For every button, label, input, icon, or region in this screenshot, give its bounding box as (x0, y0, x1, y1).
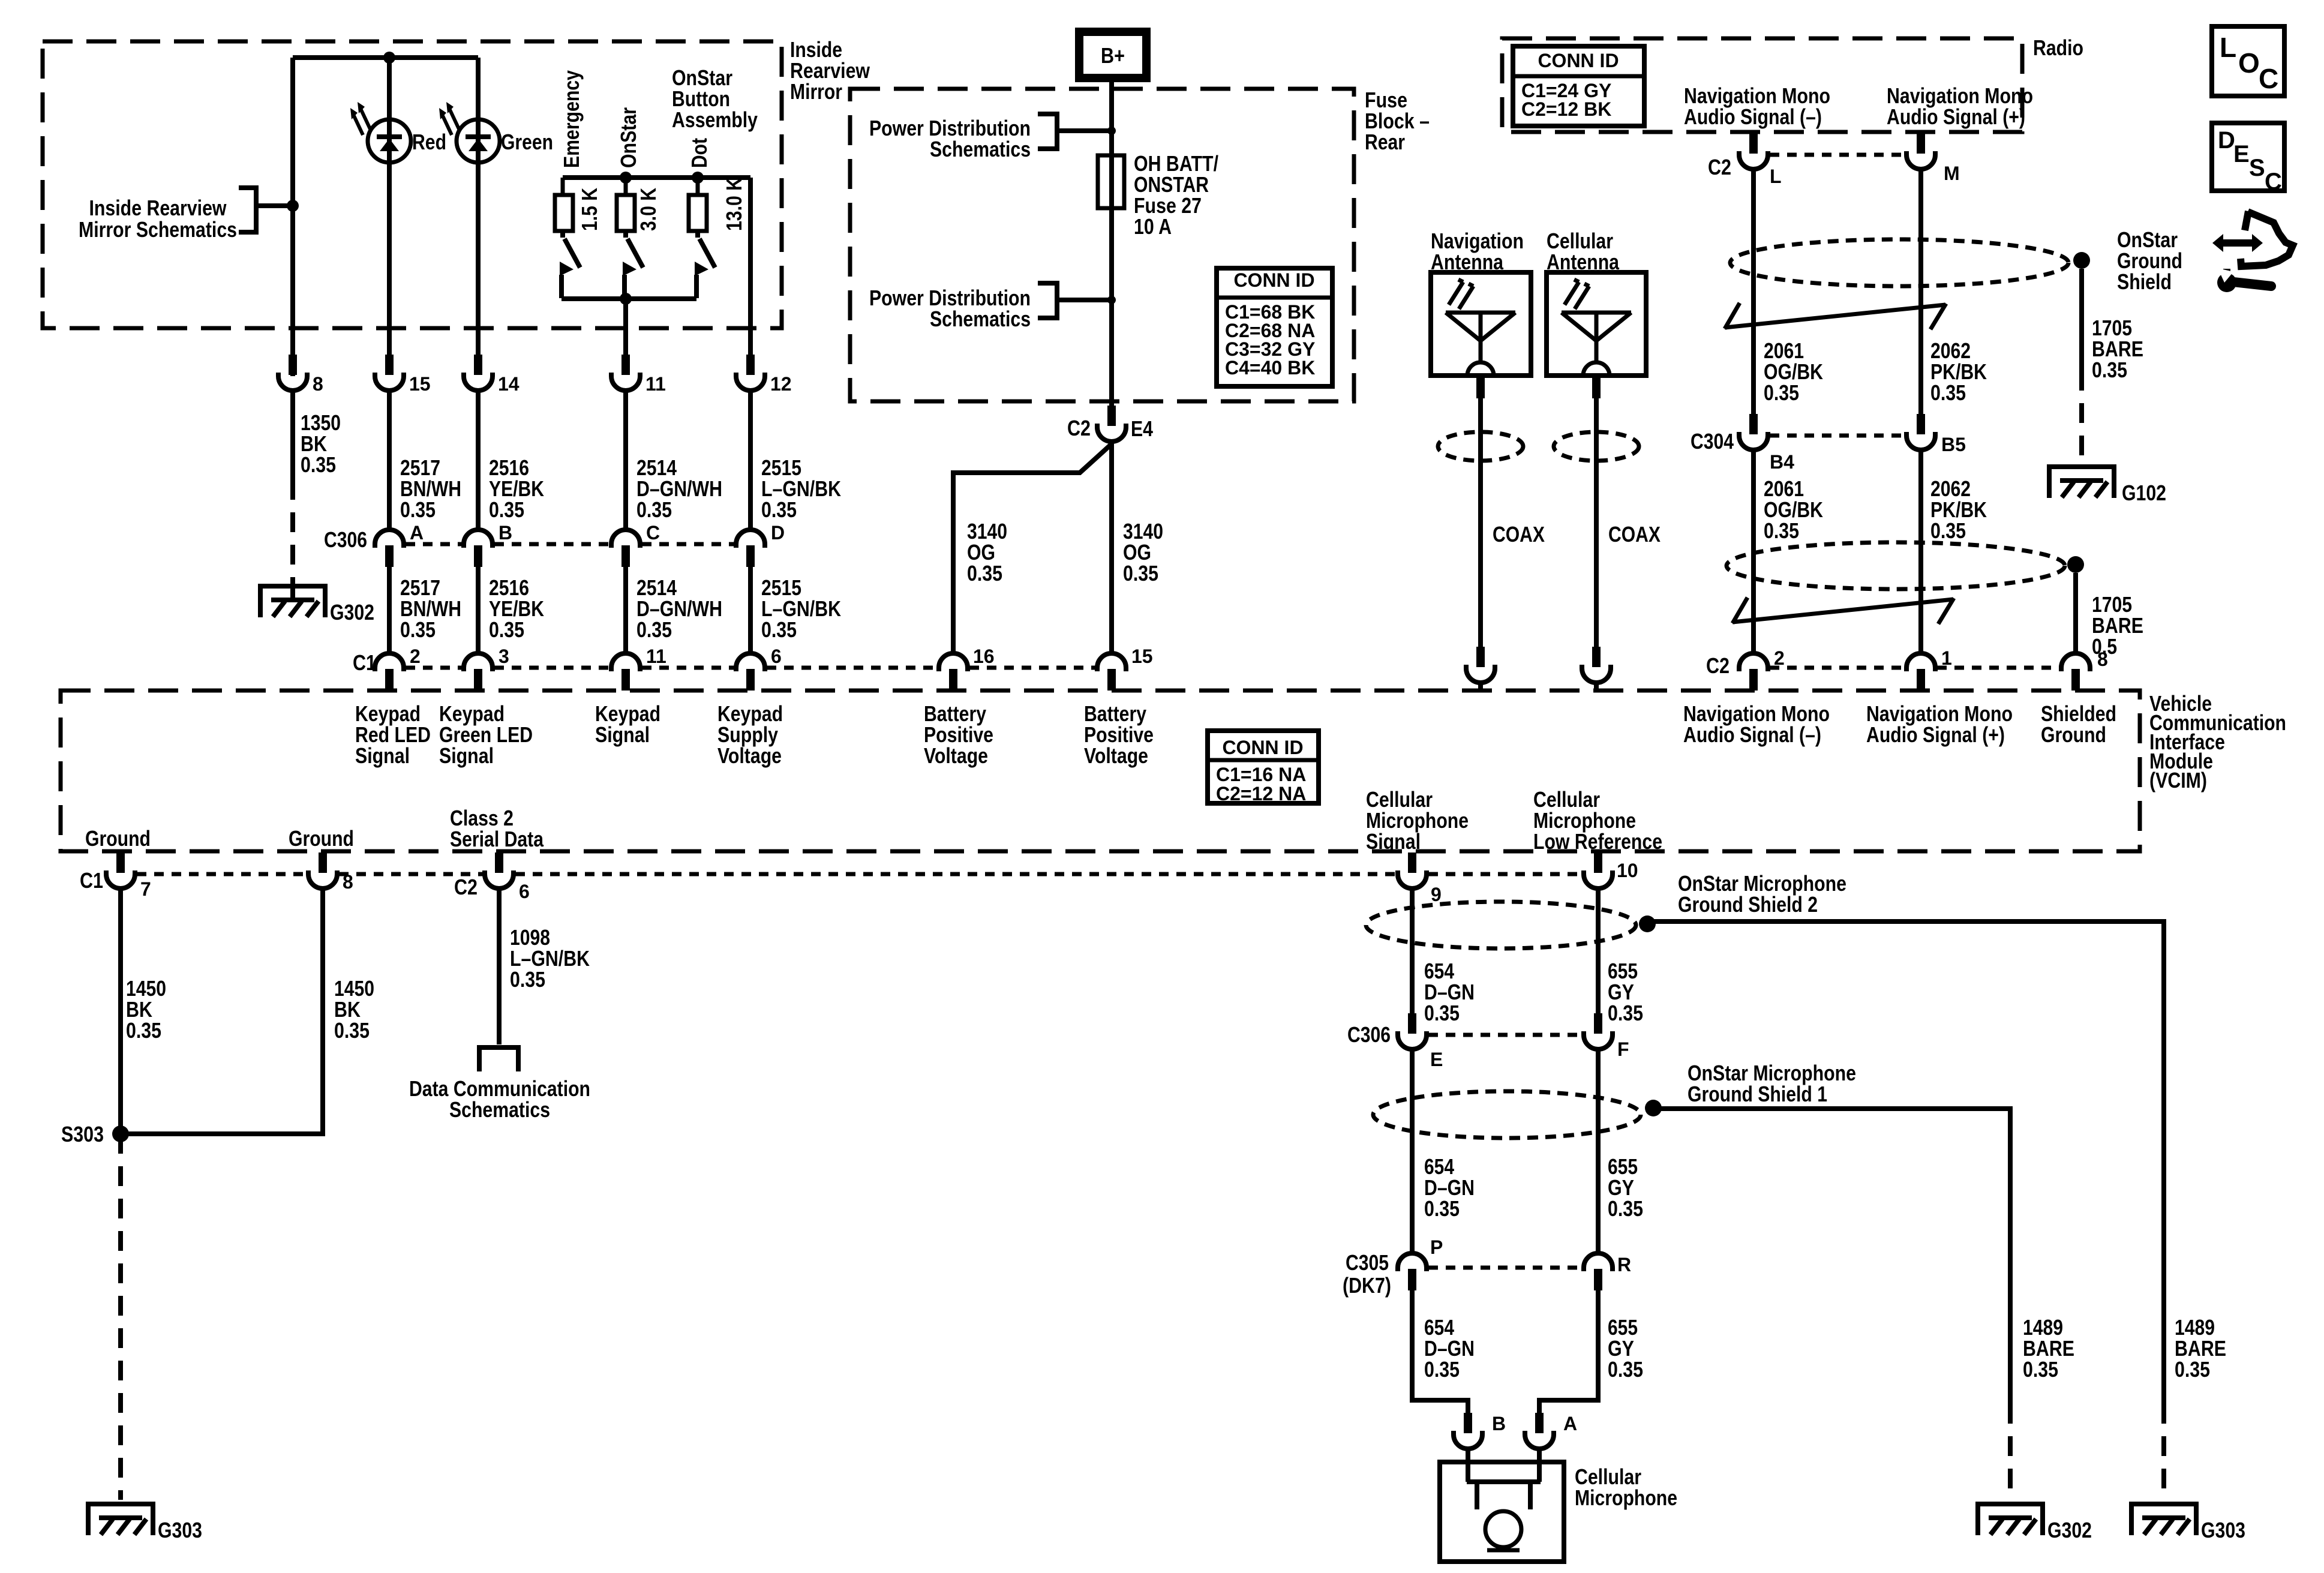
svg-text:Voltage: Voltage (924, 743, 988, 768)
shield ellipse cell antenna (1554, 432, 1639, 461)
connector C306 pin A (375, 530, 404, 567)
svg-text:Mirror Schematics: Mirror Schematics (79, 217, 237, 242)
label 654 D-GN 0.35 lower (1424, 1315, 1475, 1382)
svg-text:F: F (1617, 1038, 1629, 1060)
wire mic ground shield 2 (1647, 921, 2164, 1500)
svg-text:C2=12 BK: C2=12 BK (1521, 98, 1611, 120)
svg-text:Low Reference: Low Reference (1533, 829, 1662, 854)
connector mic pin B (1454, 1413, 1482, 1449)
wire battery 16 branch (953, 444, 1112, 653)
label 2514 D-GN/WH 0.35 upper (636, 455, 722, 522)
label 1098 L-GN/BK 0.35 (510, 925, 590, 992)
connector C306 pin C (611, 530, 640, 567)
svg-text:B+: B+ (1101, 43, 1125, 68)
svg-text:D: D (2218, 127, 2235, 154)
svg-text:R: R (1617, 1254, 1631, 1275)
wire B+ feed (1109, 78, 1114, 155)
svg-text:G302: G302 (2047, 1518, 2092, 1542)
svg-text:16: 16 (973, 646, 995, 667)
wire 1705 BARE 0.35 drop (2079, 269, 2084, 462)
wire 1450 BK left (118, 888, 123, 1134)
svg-text:2: 2 (410, 646, 421, 667)
radio dashed box (1502, 38, 2022, 132)
wire 2062 upper (1918, 169, 1923, 415)
wire nav coax (1476, 378, 1485, 647)
ground G303 right (2131, 1502, 2196, 1535)
svg-text:Radio: Radio (2033, 35, 2083, 60)
label OnStar Microphone Ground Shield 1 (1688, 1061, 1856, 1106)
svg-text:0.35: 0.35 (1424, 1357, 1460, 1382)
B+ symbol (1079, 32, 1146, 78)
svg-text:Signal: Signal (595, 722, 650, 747)
svg-text:C304: C304 (1691, 429, 1734, 454)
svg-text:C305: C305 (1346, 1250, 1389, 1275)
wire 655 upper (1596, 888, 1601, 1020)
svg-text:Audio Signal (–): Audio Signal (–) (1683, 722, 1821, 747)
LED green (439, 102, 500, 163)
label Vehicle Communication Interface Module (VCIM) (2149, 691, 2286, 792)
shield ellipse mic 2 (1366, 902, 1636, 948)
wire C1 row dashes (406, 666, 1095, 670)
svg-text:G102: G102 (2122, 481, 2166, 505)
label 655 GY 0.35 middle (1608, 1154, 1643, 1221)
svg-text:9: 9 (1431, 884, 1442, 905)
connector C1 pin 11 (611, 653, 640, 691)
resistor 1.5 K (555, 178, 602, 231)
connector C2 pin 2 (1739, 653, 1768, 691)
node mic shield 2 (1639, 915, 1656, 932)
svg-text:Shield: Shield (2117, 269, 2172, 294)
node onstar top (620, 172, 632, 184)
wire fuse to E4 (1109, 208, 1114, 406)
ground G102 (2049, 464, 2114, 498)
wire 1098 (497, 888, 502, 1044)
wire cell coax (1592, 378, 1601, 647)
node power distribution 1 (1107, 127, 1116, 135)
svg-text:Audio Signal (+): Audio Signal (+) (1887, 104, 2025, 129)
svg-text:C2=12 NA: C2=12 NA (1216, 783, 1306, 804)
fuse block rear dashed box (850, 89, 1354, 401)
svg-text:G302: G302 (330, 600, 374, 625)
connector C306 pin D (736, 530, 765, 567)
svg-text:7: 7 (140, 878, 151, 900)
svg-text:13.0 K: 13.0 K (722, 178, 746, 231)
label Power Distribution Schematics 1 (869, 116, 1031, 161)
svg-text:(DK7): (DK7) (1343, 1273, 1391, 1298)
svg-text:C2: C2 (454, 875, 478, 899)
label Inside Rearview Mirror Schematics (79, 196, 237, 242)
svg-text:A: A (1563, 1413, 1577, 1434)
switch dot (695, 231, 715, 298)
label 2062 PK/BK 0.35 upper (1930, 338, 1987, 405)
cellular microphone box (1440, 1462, 1564, 1562)
label 2515 L-GN/BK 0.35 upper (761, 455, 841, 522)
node mic shield 1 (1645, 1100, 1662, 1116)
svg-text:0.35: 0.35 (761, 497, 797, 522)
shield ellipse nav antenna (1438, 432, 1523, 461)
label Navigation Mono Audio Signal (+) bottom (1866, 701, 2013, 747)
node dot top (692, 172, 704, 184)
label 3140 OG 0.35 right (1123, 519, 1163, 586)
resistor 3.0 K (617, 178, 660, 231)
svg-text:Ground Shield 2: Ground Shield 2 (1678, 892, 1818, 917)
label Cellular Microphone (1575, 1464, 1677, 1510)
svg-text:C2: C2 (1708, 155, 1731, 179)
svg-text:C2: C2 (1706, 653, 1730, 678)
svg-text:B: B (1492, 1413, 1506, 1434)
svg-text:15: 15 (1131, 646, 1153, 667)
svg-text:6: 6 (519, 881, 530, 902)
bracket power distribution 2 (1038, 283, 1112, 318)
svg-text:C: C (2265, 169, 2282, 195)
connector C1 pin 15 (1097, 653, 1126, 691)
node shield lower (2067, 556, 2084, 573)
connector C304 pin B5 (1906, 414, 1935, 450)
label Keypad Red LED Signal (355, 701, 431, 768)
label 2516 YE/BK 0.35 lower (489, 575, 544, 642)
svg-text:0.35: 0.35 (636, 497, 672, 522)
svg-text:0.35: 0.35 (636, 617, 672, 642)
svg-text:Schematics: Schematics (930, 137, 1031, 161)
wire red LED (387, 58, 392, 356)
svg-text:C4=40 BK: C4=40 BK (1225, 357, 1315, 379)
label Keypad Supply Voltage (717, 701, 783, 768)
svg-text:0.35: 0.35 (489, 497, 524, 522)
connector C1 pin 6 (736, 653, 765, 691)
label Keypad Green LED Signal (439, 701, 533, 768)
svg-text:1.5 K: 1.5 K (577, 188, 602, 231)
pin 14 (464, 355, 493, 391)
svg-text:Schematics: Schematics (449, 1097, 550, 1122)
pin 11 (611, 355, 640, 391)
label Keypad Signal (595, 701, 660, 747)
svg-text:B5: B5 (1941, 434, 1966, 455)
svg-text:Green: Green (501, 130, 553, 154)
connector C304 pin B4 (1739, 414, 1768, 450)
label 655 GY 0.35 upper (1608, 959, 1643, 1025)
svg-text:0.35: 0.35 (1764, 380, 1799, 405)
wire switch bottom bus (562, 296, 696, 301)
CONN ID box fuse block (1217, 268, 1332, 386)
off-page symbol data communication (479, 1047, 518, 1071)
wire 2516 upper (476, 391, 481, 530)
connector cell coax at VCIM (1582, 647, 1611, 683)
wire 654 upper (1410, 888, 1415, 1020)
svg-text:0.35: 0.35 (334, 1018, 370, 1043)
wire C306 EF dashes (1428, 1033, 1582, 1037)
shield ellipse mic 1 (1373, 1091, 1641, 1138)
svg-text:10: 10 (1617, 860, 1638, 881)
label 655 GY 0.35 lower (1608, 1315, 1643, 1382)
connector nav coax at VCIM (1466, 647, 1495, 683)
svg-text:A: A (410, 522, 424, 544)
label OnStar Ground Shield (2117, 227, 2182, 294)
svg-text:0.35: 0.35 (1930, 518, 1966, 543)
ground G302 (mirror) (260, 584, 325, 617)
VCIM dashed box (61, 691, 2140, 851)
microphone symbol (1467, 1449, 1541, 1550)
svg-text:Emergency: Emergency (559, 70, 584, 168)
twist symbol lower (1733, 598, 1954, 624)
wire 2514 upper (623, 391, 628, 530)
svg-text:0.35: 0.35 (1424, 1001, 1460, 1025)
wire 2061 lower (1751, 450, 1756, 653)
label OnStar Button Assembly (672, 65, 758, 132)
ground G303 left (88, 1502, 153, 1535)
svg-text:CONN ID: CONN ID (1233, 269, 1314, 291)
ground G302 right (1978, 1502, 2043, 1535)
label 1489 BARE 0.35 right (2175, 1315, 2226, 1382)
wrench icon (2212, 211, 2293, 292)
label Battery Positive Voltage 16 (924, 701, 993, 768)
wire 2517 upper (387, 391, 392, 530)
label 1489 BARE 0.35 left (2023, 1315, 2074, 1382)
connector C2 pin 1 (1906, 653, 1935, 691)
svg-text:C1=16 NA: C1=16 NA (1216, 764, 1306, 785)
wire C2 row dashes (1770, 666, 2059, 670)
svg-text:0.35: 0.35 (2092, 358, 2127, 382)
svg-text:0.35: 0.35 (1764, 518, 1799, 543)
svg-text:Microphone: Microphone (1575, 1485, 1677, 1510)
svg-text:Signal: Signal (1366, 829, 1421, 854)
svg-text:Audio Signal (+): Audio Signal (+) (1866, 722, 2005, 747)
LOC icon (2212, 26, 2284, 96)
node shield upper (2073, 252, 2090, 269)
svg-text:11: 11 (646, 646, 666, 667)
label Battery Positive Voltage 15 (1084, 701, 1154, 768)
node mirror schematics tap (287, 200, 299, 212)
svg-text:0.35: 0.35 (1608, 1001, 1643, 1025)
wire coax stubs to edge (1481, 683, 1596, 691)
connector C2 pin 8 (2061, 653, 2090, 691)
wire 655 middle (1596, 1049, 1601, 1253)
svg-text:Audio Signal (–): Audio Signal (–) (1684, 104, 1822, 129)
label 2516 YE/BK 0.35 upper (489, 455, 544, 522)
svg-text:15: 15 (409, 373, 431, 395)
label Power Distribution Schematics 2 (869, 286, 1031, 331)
label Navigation Antenna (1431, 229, 1524, 274)
svg-text:3: 3 (499, 646, 509, 667)
switch emergency (560, 231, 580, 298)
svg-text:Rear: Rear (1365, 130, 1405, 154)
svg-text:0.35: 0.35 (967, 561, 1002, 586)
connector C2 pin M (1906, 132, 1935, 169)
svg-text:CONN ID: CONN ID (1222, 737, 1303, 758)
CONN ID box radio (1513, 46, 1644, 126)
svg-text:0.35: 0.35 (2023, 1357, 2058, 1382)
wire top bus (293, 55, 478, 60)
label 2061 OG/BK 0.35 lower (1764, 476, 1823, 543)
svg-text:Ground: Ground (289, 826, 354, 851)
svg-text:C306: C306 (1347, 1022, 1391, 1047)
connector C306 pin B (464, 530, 493, 567)
svg-text:COAX: COAX (1493, 522, 1545, 547)
svg-text:Mirror: Mirror (790, 79, 842, 104)
label 2515 L-GN/BK 0.35 lower (761, 575, 841, 642)
bracket mirror schematics (239, 188, 293, 232)
label 654 D-GN 0.35 upper (1424, 959, 1475, 1025)
wire C304 dashes (1770, 434, 1905, 438)
shield ellipse radio upper (1730, 239, 2068, 286)
svg-text:Red: Red (412, 130, 446, 154)
wire 1705 BARE 0.5 drop (2073, 573, 2078, 653)
node top bus junction (383, 52, 395, 64)
connector pin 10 (1584, 852, 1613, 888)
label Cellular Microphone Signal (1366, 787, 1469, 854)
svg-text:0.35: 0.35 (400, 617, 436, 642)
svg-text:0.35: 0.35 (400, 497, 436, 522)
label 1705 BARE 0.5 (2092, 592, 2143, 659)
svg-text:L: L (1770, 166, 1782, 187)
label 1350 BK 0.35 (301, 410, 341, 477)
wire 1450 BK right (121, 888, 323, 1134)
CONN ID box VCIM (1208, 731, 1319, 804)
svg-text:Ground Shield 1: Ground Shield 1 (1688, 1082, 1827, 1106)
svg-text:3.0 K: 3.0 K (636, 188, 660, 231)
svg-text:S: S (2249, 155, 2265, 181)
navigation antenna box (1431, 272, 1531, 376)
DESC icon (2212, 123, 2284, 195)
svg-text:COAX: COAX (1608, 522, 1661, 547)
svg-text:0.35: 0.35 (1608, 1357, 1643, 1382)
svg-text:8: 8 (2097, 649, 2108, 670)
label 1705 BARE 0.35 (2092, 316, 2143, 382)
svg-text:0.35: 0.35 (1930, 380, 1966, 405)
svg-text:Inside Rearview: Inside Rearview (89, 196, 227, 220)
connector mic pin A (1525, 1413, 1554, 1449)
svg-text:0.35: 0.35 (1123, 561, 1158, 586)
wire 1350 BK (290, 391, 295, 600)
connector C1 pin 7 (106, 852, 135, 888)
label 1450 BK 0.35 right (334, 976, 374, 1043)
svg-text:10 A: 10 A (1134, 214, 1172, 239)
wire 655 lower (1539, 1289, 1598, 1413)
svg-text:B: B (499, 522, 512, 544)
svg-text:E4: E4 (1131, 416, 1153, 441)
svg-text:0.35: 0.35 (126, 1018, 161, 1043)
bracket power distribution 1 (1038, 114, 1112, 149)
label C305 (DK7) (1343, 1250, 1391, 1298)
wire keypad signal drop (623, 299, 628, 356)
svg-text:0.35: 0.35 (489, 617, 524, 642)
wire keypad supply drop (748, 178, 753, 356)
node S303 (112, 1125, 129, 1142)
svg-text:Ground: Ground (2041, 722, 2106, 747)
wire 2515 lower (748, 567, 753, 653)
svg-text:(VCIM): (VCIM) (2149, 768, 2207, 792)
connector C306 pin E (1398, 1013, 1427, 1049)
svg-text:C1: C1 (80, 868, 103, 893)
svg-text:S303: S303 (61, 1122, 104, 1146)
wire 2061 upper (1751, 169, 1756, 415)
label Class 2 Serial Data (450, 806, 544, 851)
svg-text:E: E (2233, 141, 2250, 167)
svg-text:0.35: 0.35 (1608, 1196, 1643, 1221)
fuse OH BATT/ONSTAR (1098, 155, 1124, 208)
wire C2 L-M dashes (1770, 153, 1905, 157)
pin 8 (278, 355, 307, 391)
wire 2514 lower (623, 567, 628, 653)
svg-text:M: M (1944, 163, 1960, 184)
svg-text:0.35: 0.35 (2175, 1357, 2210, 1382)
svg-text:Schematics: Schematics (930, 307, 1031, 331)
label 2062 PK/BK 0.35 lower (1930, 476, 1987, 543)
svg-text:D: D (771, 522, 785, 544)
svg-text:G303: G303 (2201, 1518, 2245, 1542)
svg-text:B4: B4 (1770, 451, 1794, 473)
twist symbol upper (1725, 303, 1946, 329)
svg-text:Signal: Signal (355, 743, 410, 768)
wire battery 15 drop (1109, 442, 1114, 653)
svg-text:0.35: 0.35 (761, 617, 797, 642)
label Navigation Mono Audio Signal (-) top (1684, 83, 1830, 129)
wire green LED (476, 58, 481, 356)
label Cellular Microphone Low Reference (1533, 787, 1662, 854)
connector C1 pin 16 (939, 653, 968, 691)
wire bottom row dashes (137, 872, 1582, 876)
connector C2 pin 6 (485, 852, 514, 888)
svg-text:6: 6 (771, 646, 782, 667)
connector pin 9 (1398, 852, 1427, 888)
svg-text:Voltage: Voltage (717, 743, 782, 768)
cellular antenna box (1547, 272, 1646, 376)
svg-text:Signal: Signal (439, 743, 494, 768)
connector C1 pin 2 (375, 653, 404, 691)
label OnStar Microphone Ground Shield 2 (1678, 871, 1846, 917)
svg-text:11: 11 (645, 373, 666, 395)
wire 2516 lower (476, 567, 481, 653)
label 1450 BK 0.35 left (126, 976, 166, 1043)
wire 654 middle (1410, 1049, 1415, 1253)
label Data Communication Schematics (409, 1076, 590, 1122)
svg-text:G303: G303 (158, 1518, 202, 1542)
svg-text:C: C (646, 522, 660, 544)
label 3140 OG 0.35 left (967, 519, 1007, 586)
wire 2517 lower (387, 567, 392, 653)
label Cellular Antenna (1547, 229, 1620, 274)
svg-text:0.35: 0.35 (301, 452, 336, 477)
shield ellipse radio lower (1727, 542, 2065, 589)
label Navigation Mono Audio Signal (-) bottom (1683, 701, 1830, 747)
svg-text:O: O (2238, 47, 2260, 79)
LED red (350, 102, 411, 163)
connector C2 pin L (1739, 132, 1768, 169)
connector C1 pin 3 (464, 653, 493, 691)
svg-text:C306: C306 (324, 527, 367, 552)
wire C306 dashes (406, 542, 734, 547)
svg-text:Assembly: Assembly (672, 107, 758, 132)
svg-text:Voltage: Voltage (1084, 743, 1148, 768)
svg-text:8: 8 (313, 373, 323, 395)
wire 654 lower (1412, 1289, 1468, 1413)
pin 15 (375, 355, 404, 391)
label 2517 BN/WH 0.35 lower (400, 575, 461, 642)
svg-text:0.35: 0.35 (1424, 1196, 1460, 1221)
svg-text:P: P (1430, 1236, 1443, 1258)
switch onstar (623, 231, 643, 298)
label 2517 BN/WH 0.35 upper (400, 455, 461, 522)
connector C305 pin P (1398, 1253, 1427, 1290)
svg-text:CONN ID: CONN ID (1538, 50, 1619, 71)
label 654 D-GN 0.35 middle (1424, 1154, 1475, 1221)
label OH BATT/ONSTAR Fuse 27 10 A (1134, 151, 1218, 239)
connector C305 pin R (1584, 1253, 1613, 1290)
inside rearview mirror dashed box (43, 41, 782, 328)
wire keypad backlight feed (290, 58, 295, 376)
label Fuse Block - Rear (1365, 88, 1430, 154)
node power distribution 2 (1107, 296, 1116, 304)
label 2514 D-GN/WH 0.35 lower (636, 575, 722, 642)
